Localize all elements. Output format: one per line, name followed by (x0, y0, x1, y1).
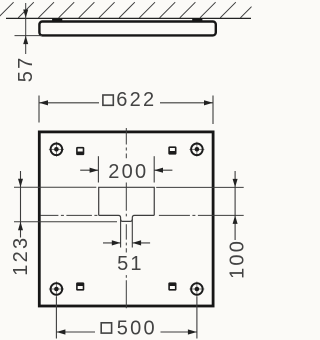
dim 57 arrow up (23, 36, 28, 45)
dim 200 arrow right (154, 168, 172, 173)
svg-text:123: 123 (10, 236, 32, 276)
connector box top-right (168, 146, 176, 154)
svg-text:622: 622 (116, 89, 156, 111)
screw top-left (49, 142, 64, 157)
box bottom edge with cable notch (99, 215, 155, 221)
dim 57 arrow down (23, 10, 28, 19)
dim 123 bottom extension (14, 221, 117, 223)
connector box bottom-left (76, 282, 84, 290)
svg-text:500: 500 (117, 318, 157, 340)
connector box bottom-right (168, 282, 176, 290)
dim 622 line right segment (160, 102, 213, 104)
dim 123 arrow down (18, 179, 23, 188)
luminaire square outline (39, 132, 213, 306)
dim 51 extension left (120, 219, 122, 248)
mounting pad left (52, 18, 62, 21)
ceiling hatch (0, 2, 276, 18)
dim 100 line (234, 171, 236, 240)
dim 500 line left segment (56, 331, 95, 333)
horizontal centerline left of box (40, 214, 98, 216)
dim 622 line left segment (39, 102, 99, 104)
screw top-right (189, 142, 204, 157)
svg-text:200: 200 (108, 161, 148, 183)
vertical centerline (125, 128, 127, 308)
connector box top-left (76, 147, 84, 155)
dim 57 extension line (15, 35, 43, 37)
dim 500 arrow right (188, 329, 197, 334)
dim 51 arrow right (132, 240, 150, 245)
dim 500 extension right (196, 297, 198, 339)
svg-text:51: 51 (117, 253, 144, 275)
dim 123 line (20, 171, 22, 238)
dim 622 arrow left (39, 100, 48, 105)
dim 123 top extension (14, 186, 96, 188)
dim 100 arrow down (233, 179, 238, 188)
dim 200 arrow left (80, 168, 98, 173)
svg-text:57: 57 (15, 56, 37, 83)
dim 200 extension right (153, 156, 155, 182)
dim 100 arrow up (233, 215, 238, 224)
dim 200 extension left (97, 156, 99, 182)
dim 123 arrow up (18, 222, 23, 231)
dim 622 arrow right (204, 100, 213, 105)
dim 500 arrow left (56, 329, 65, 334)
dim 57 line (25, 3, 27, 54)
screw bottom-left (49, 282, 64, 297)
inner connection box (99, 187, 155, 215)
screw bottom-right (189, 282, 204, 297)
dim 51 arrow left (103, 240, 121, 245)
ceiling line (6, 17, 251, 19)
dim 622 extension left (38, 96, 40, 123)
dim 51 extension right (131, 219, 133, 248)
dim 622 square symbol (103, 95, 113, 105)
mounting pad right (192, 18, 202, 21)
dim 100 top extension (156, 186, 244, 188)
dim 500 extension left (55, 297, 57, 339)
dim 500 square symbol (101, 323, 111, 333)
dim 622 extension right (212, 96, 214, 125)
horizontal centerline right of box (159, 214, 244, 216)
svg-text:100: 100 (227, 239, 249, 279)
dim 500 line right segment (161, 331, 197, 333)
panel profile (side view) (39, 22, 215, 36)
